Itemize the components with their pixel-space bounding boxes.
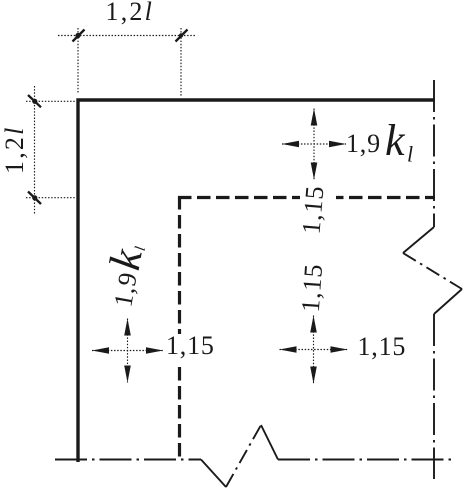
svg-text:1,9: 1,9: [108, 270, 143, 309]
svg-text:1,2l: 1,2l: [0, 125, 29, 174]
load cross top-right: [282, 109, 346, 180]
tick top-left: [73, 30, 85, 42]
tick left-top: [28, 95, 41, 107]
zone boundary dashed horizontal: [178, 196, 435, 199]
axis line right (dash-dot with break): [403, 80, 462, 479]
axis line bottom (dash-dot with break): [55, 425, 453, 487]
svg-text:1,2l: 1,2l: [106, 0, 155, 26]
svg-text:1,15: 1,15: [296, 263, 328, 314]
svg-text:l: l: [407, 142, 413, 167]
dimension line 1,2l top: [58, 28, 195, 97]
zone boundary dashed vertical: [178, 196, 181, 461]
tick top-right: [176, 30, 188, 42]
load cross left: [92, 319, 163, 383]
tick left-bottom: [28, 192, 41, 205]
label 1,15 rotated on dashed line (upper): [296, 184, 336, 235]
label 1,9 kl top-right: [346, 116, 413, 167]
svg-text:1,9: 1,9: [346, 129, 381, 158]
dimension line 1,2l left: [26, 86, 75, 214]
svg-text:1,15: 1,15: [358, 332, 407, 361]
svg-text:k: k: [385, 116, 406, 165]
wall corner (solid thick edges): [78, 100, 435, 462]
svg-text:1,15: 1,15: [166, 331, 215, 360]
tick crossing dots: [32, 33, 183, 201]
label 1,15 left cross: [164, 331, 216, 365]
load cross lower-right: [280, 316, 348, 384]
label 1,9 kl left (rotated): [94, 240, 153, 310]
svg-text:1,15: 1,15: [296, 184, 329, 235]
